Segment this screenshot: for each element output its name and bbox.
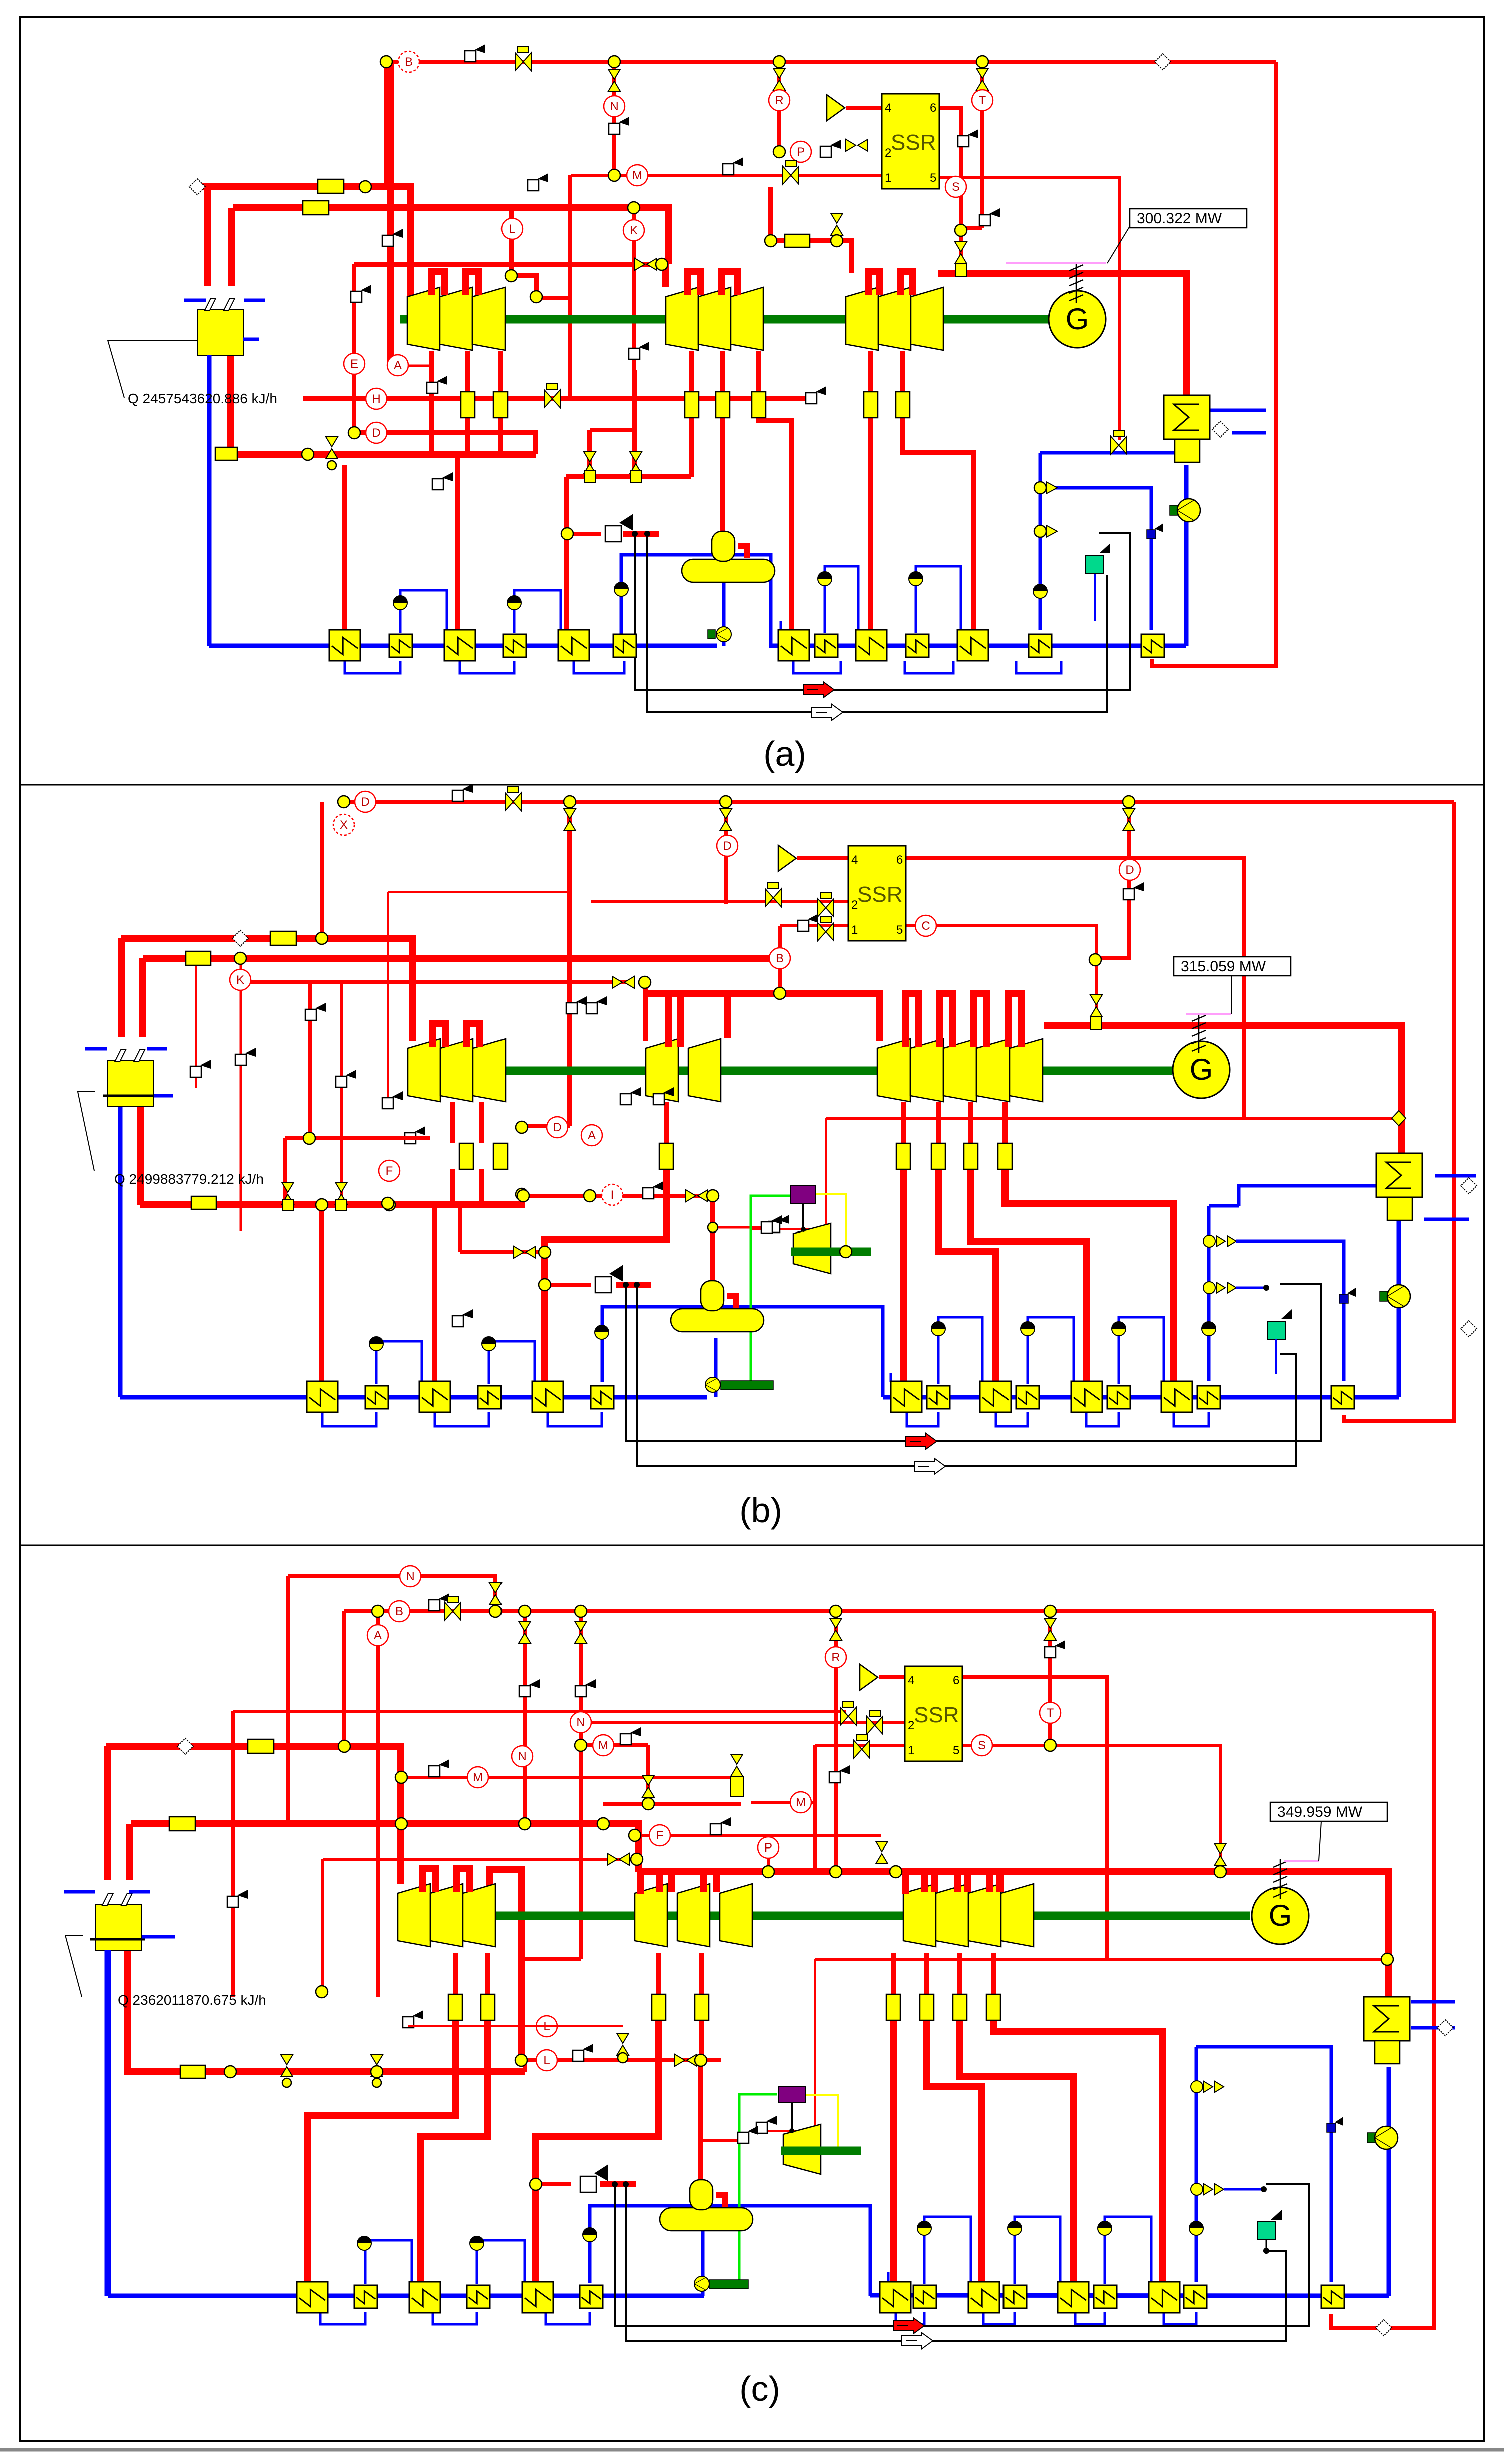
svg-text:5: 5 [930, 171, 936, 185]
feedwater heater 2 c [354, 2285, 377, 2308]
aux condensate top b2 [1239, 1186, 1389, 1206]
feedwater heater 15 b [1331, 1386, 1354, 1409]
node I end c [316, 1986, 328, 1998]
instrument tap [351, 285, 371, 302]
wire lp extr 2 a [900, 351, 905, 392]
mw leader b [1231, 976, 1232, 1014]
wire hp extr 2b a [465, 418, 470, 454]
heater vent 1 c [365, 2240, 412, 2284]
extraction nozzle [864, 392, 878, 418]
IP turbine section 2 c [677, 1884, 710, 1947]
feedwater heater 3 a [444, 630, 475, 661]
wire right return loop a [1152, 62, 1276, 666]
heater loop 4 a [793, 661, 841, 673]
svg-text:D: D [553, 1121, 561, 1134]
duct dot c3 [1263, 2248, 1269, 2254]
wire header drop b [320, 802, 324, 938]
wire ip extr0 a [689, 351, 694, 392]
svg-text:N: N [406, 1570, 414, 1583]
tap b4 [566, 996, 587, 1014]
wire deaerator inlet b [710, 1196, 715, 1285]
svg-text:N: N [576, 1716, 585, 1729]
heater loop 6 b [1086, 1412, 1119, 1426]
wire main steam 1 b [121, 938, 413, 1041]
makeup flag b [1281, 1309, 1292, 1319]
node [720, 796, 732, 808]
instrument tap [958, 129, 978, 147]
drain cooler 3 a [614, 582, 628, 596]
stop valve [818, 917, 834, 941]
heater vent 3 / deaerator bypass c [590, 2206, 870, 2296]
makeup dot b [1263, 1285, 1269, 1291]
wire IP inlet leg c [637, 1872, 644, 1894]
condensate downcomer a [207, 355, 212, 646]
feedwater heater 6 b [591, 1386, 614, 1409]
wire R drop c [834, 1611, 838, 1872]
wire gland drop b [340, 982, 343, 1197]
heater vent 6 b [1119, 1317, 1164, 1384]
heater loop 1 a [345, 661, 400, 673]
control valve [1044, 1618, 1056, 1640]
condensate downcomer c [105, 1950, 111, 2296]
air duct 2 b [637, 1285, 1296, 1466]
wire IP inlet b [643, 982, 648, 1041]
extraction nozzle [652, 1994, 666, 2020]
hx blue out 2 a [1232, 431, 1266, 435]
svg-text:G: G [1269, 1899, 1292, 1932]
feedwater heater 13 c [1149, 2282, 1180, 2313]
node reheat a [831, 235, 843, 247]
instrument tap [403, 2010, 423, 2028]
feedwater heater 4 c [467, 2285, 490, 2308]
wire boiler riser 1 a [204, 187, 211, 286]
tri1 [1046, 482, 1057, 494]
stop valve [515, 47, 531, 71]
drain cooler 3 c [583, 2228, 597, 2242]
svg-text:SSR: SSR [914, 1703, 959, 1727]
extraction nozzle [481, 1994, 495, 2020]
wire SSR pin5 line c [962, 1745, 1220, 1872]
LP crossover 3 c [990, 1872, 1000, 1892]
wire hp extr 2 b [479, 1102, 484, 1143]
drain cooler 5 c [1008, 2221, 1022, 2235]
node [642, 1798, 654, 1810]
svg-text:K: K [630, 224, 638, 237]
condensate main west a [209, 644, 717, 648]
svg-text:A: A [374, 1629, 382, 1642]
wire hp extr 1 c [453, 1953, 458, 1994]
wire P stub c [767, 1847, 770, 1872]
IP crossover 1 a [688, 272, 701, 295]
boiler a [198, 298, 244, 355]
svg-text:6: 6 [930, 101, 936, 115]
svg-text:(c): (c) [739, 2369, 780, 2408]
wire boiler feed drop c [128, 1950, 180, 2072]
IP turbine section 3 c [720, 1884, 752, 1947]
node [656, 258, 668, 270]
instrument tap [528, 173, 548, 191]
wire pegging drop 2 a [632, 370, 637, 471]
heater loop 5 b [996, 1412, 1028, 1426]
control valve [326, 437, 338, 459]
power line pink c [1284, 1860, 1319, 1862]
hx blue out 2 b [1435, 1174, 1476, 1178]
node [773, 146, 785, 158]
node [1044, 1605, 1056, 1617]
feedwater heater 10 b [1016, 1386, 1039, 1409]
drain cooler 6 a [1033, 584, 1047, 598]
turbine shaft b [408, 1067, 1172, 1075]
drain cooler 7 c [1189, 2221, 1203, 2235]
condensate riser b [1397, 1218, 1401, 1397]
valve body a [955, 264, 966, 277]
HP turbine section 1 a [407, 287, 440, 350]
LP turbine section 1 a [846, 287, 878, 350]
wire SSR pin6 line a [939, 108, 961, 257]
wire heater2 steam b [432, 1205, 437, 1381]
MW label a [1130, 209, 1247, 228]
HP turbine section 3 b [473, 1039, 506, 1102]
wire I line c [323, 1858, 638, 1861]
wire LP manifold c [638, 1868, 1034, 1875]
restrictor a4 [785, 234, 810, 247]
aux condensate c [1195, 2047, 1198, 2282]
wire relief stub c [600, 2181, 636, 2187]
turbine shaft a [400, 315, 1049, 324]
svg-text:Q 2362011870.675 kJ/h: Q 2362011870.675 kJ/h [118, 1992, 266, 2008]
wire cold reheat c [205, 2068, 525, 2075]
tap b7 [190, 1060, 211, 1077]
stream label M [593, 1735, 614, 1756]
stream label S [971, 1735, 992, 1756]
heater loop 2 a [460, 661, 514, 673]
svg-text:6: 6 [896, 853, 903, 867]
wire F riser b [283, 1138, 287, 1203]
drain cooler 2 c [470, 2236, 484, 2250]
IP turbine section 1 b [646, 1039, 678, 1102]
condensate main b2 [1351, 1395, 1399, 1400]
wire pin1 drop a [568, 175, 572, 399]
wire F line b [285, 1136, 430, 1140]
boiler blue stub TR c [129, 1890, 150, 1894]
heater vent 4 b [938, 1317, 982, 1384]
svg-text:A: A [394, 359, 402, 372]
node steam c [395, 1818, 407, 1830]
wire N-branch a [612, 62, 616, 175]
duct arrow red c [893, 2318, 924, 2334]
node I b [517, 1190, 529, 1202]
instrument tap [643, 1181, 663, 1199]
boiler blue stub L b [85, 1047, 107, 1051]
wire aux steam c [815, 1958, 1387, 1961]
wire F line c [635, 1834, 881, 1837]
generator G a [1049, 291, 1106, 348]
HP turbine section 2 c [430, 1884, 463, 1947]
wire right return loop c [1331, 1611, 1434, 2328]
valve cr2 b [335, 1182, 347, 1204]
svg-text:R: R [775, 94, 783, 107]
extraction nozzle [998, 1143, 1012, 1169]
wire T-branch a [980, 62, 984, 228]
drain cooler 4 a [818, 572, 832, 586]
drain cooler 2 b [482, 1337, 496, 1351]
node [338, 1740, 350, 1752]
stream label H [366, 388, 387, 409]
aux condensate b [1207, 1206, 1211, 1381]
extraction nozzle [493, 1143, 508, 1169]
connector header a [1155, 54, 1171, 70]
air duct 2 a [647, 534, 1107, 712]
power line pink a [1006, 262, 1106, 264]
LP turbine section 2 c [936, 1884, 968, 1947]
control valve [575, 1621, 587, 1643]
extraction nozzle [896, 392, 910, 418]
feedwater heater 5 c [522, 2282, 553, 2313]
boiler blue stub R b [154, 1094, 173, 1098]
extraction nozzle [659, 1143, 673, 1169]
feedwater heater 12 b [1107, 1386, 1130, 1409]
wire ip extr 2 c [699, 1953, 704, 1994]
node [629, 1829, 641, 1841]
instrument tap [798, 914, 818, 931]
makeup link b [1236, 1287, 1266, 1289]
connector steam a [189, 179, 205, 195]
feedwater heater 11 b [1071, 1381, 1102, 1412]
node [597, 1818, 609, 1830]
wire bypass drop a [387, 62, 394, 366]
stop valve [445, 1596, 461, 1620]
wire ip extr2 a [756, 351, 761, 392]
wire reheat aux drop b [387, 892, 389, 1106]
svg-text:X: X [340, 818, 348, 832]
wire M2 line c [751, 1801, 815, 1804]
cond valve 2 b [1203, 1282, 1236, 1294]
makeup flag a [1099, 543, 1110, 553]
svg-text:N: N [610, 100, 618, 113]
HP turbine section 2 a [440, 287, 472, 350]
wire aux drop c [231, 1711, 235, 1997]
tap b2 [336, 1070, 356, 1087]
LP turbine section 3 b [943, 1039, 976, 1102]
tap b10 [452, 1309, 473, 1327]
aux condensate 2 c [1196, 2047, 1331, 2282]
wire cr elbow c [523, 2060, 527, 2072]
node [519, 1605, 531, 1617]
feedwater heater 5 a [558, 630, 589, 661]
node [597, 1818, 609, 1830]
svg-text:F: F [656, 1829, 664, 1842]
wire IP inlet a [662, 264, 669, 287]
node [830, 1866, 842, 1878]
wire N header c [288, 1576, 495, 1605]
stream label C [915, 915, 936, 936]
wire ip extr 1 b [664, 1102, 669, 1143]
stream label M [627, 165, 648, 186]
wire lp extr 4 c [991, 1953, 996, 1994]
svg-text:E: E [350, 357, 358, 371]
wire hp extr 2 c [485, 1953, 490, 1994]
node [1089, 954, 1101, 966]
HP crossover 2 b [466, 1023, 479, 1047]
Q leader c [65, 1935, 83, 1997]
IP admission valve c [607, 1853, 629, 1865]
bfpt turbine b [793, 1223, 831, 1274]
feedwater heater 10 a [906, 634, 929, 657]
stream label T [972, 90, 993, 111]
wire cold reheat a [235, 451, 536, 458]
drain cooler 3 b [595, 1325, 609, 1339]
hx blue out 1 c [1411, 2000, 1455, 2004]
tri2 [1046, 525, 1057, 537]
MW label b [1174, 957, 1291, 976]
wire relief link a [567, 532, 601, 536]
wire tap drop 2 b [195, 958, 197, 1088]
node [539, 1246, 551, 1258]
wire D-branch 2 b [1096, 802, 1129, 958]
tap b2b [382, 1091, 403, 1109]
wire main steam 2 c [131, 1824, 638, 1872]
deaerator b [671, 1281, 764, 1332]
HP turbine section 3 a [472, 287, 505, 350]
valve s c [1214, 1843, 1226, 1866]
feedwater heater 12 c [1094, 2285, 1117, 2308]
boiler blue stub TR b [147, 1047, 167, 1051]
panel divider b/c [20, 1545, 1484, 1546]
feedwater heater 3 c [409, 2282, 440, 2313]
LP admission valve b [1090, 995, 1102, 1017]
svg-text:300.322 MW: 300.322 MW [1137, 210, 1222, 227]
condensate main c2 [1331, 2294, 1389, 2298]
node [519, 1818, 531, 1830]
node [976, 56, 988, 68]
LP crossover 2 b [940, 993, 953, 1047]
svg-text:5: 5 [953, 1744, 959, 1757]
heater loop 1 c [320, 2312, 365, 2324]
wire hp extr 1 a [429, 351, 434, 454]
control valve [608, 69, 620, 91]
feedwater heater 2 b [365, 1386, 388, 1409]
generator G c [1252, 1887, 1309, 1944]
tap b6 [235, 1048, 256, 1065]
IP crossover 2 a [722, 272, 738, 295]
wire relief stub a [623, 531, 659, 537]
node [530, 2178, 542, 2190]
tap b9 [653, 1087, 674, 1105]
deaerator valve 2 a [630, 452, 642, 474]
control valve [519, 1621, 531, 1643]
wire heater2 steam c [420, 2020, 488, 2282]
drain tap blue b [1339, 1288, 1356, 1303]
instrument tap [432, 472, 453, 490]
condensate main west b [120, 1395, 707, 1400]
IP inlet valve c [876, 1841, 888, 1864]
node [773, 56, 785, 68]
drain cooler 7 b [1202, 1322, 1216, 1336]
aux condensate top a [1040, 451, 1174, 455]
power line pink b [1186, 1013, 1231, 1015]
valve body b [1091, 1017, 1102, 1030]
feedwater heater 7 c [880, 2282, 911, 2313]
wire aux line c [233, 1710, 846, 1713]
wire D-branch b [724, 802, 728, 904]
svg-text:L: L [543, 2054, 550, 2067]
deaerator valve 1 a [584, 452, 596, 474]
extraction nozzle [493, 392, 508, 418]
LP crossover 2 c [957, 1872, 967, 1892]
svg-text:L: L [509, 222, 515, 236]
node [631, 1853, 643, 1865]
stream label K [623, 220, 644, 241]
wire I drop c [321, 1859, 324, 1997]
wire heater7 steam b [1005, 1169, 1174, 1381]
drain cooler 4 b [931, 1322, 945, 1336]
svg-text:G: G [1066, 302, 1089, 336]
wire heater3 steam a [564, 477, 569, 630]
wire SSR pin1 line c [815, 1744, 905, 1747]
valve body da1 [584, 471, 595, 483]
condensate pump b [1380, 1285, 1410, 1308]
instrument tap [979, 208, 1000, 226]
HP crossover 1 b [432, 1023, 445, 1047]
bfpt turbine c [783, 2124, 821, 2174]
stop valve [840, 1701, 856, 1725]
aux condensate a [1039, 453, 1042, 630]
instrument tap [382, 229, 403, 246]
node l3 c [618, 2053, 628, 2063]
tap b1 [305, 1003, 326, 1020]
heater vent 5 b [1028, 1317, 1074, 1384]
heater loop 7 b [1174, 1412, 1209, 1426]
instrument tap [465, 44, 485, 62]
wire heater1 steam c [308, 2020, 455, 2282]
wire dea aux b [460, 1250, 545, 1254]
svg-text:F: F [386, 1164, 393, 1178]
node [530, 291, 542, 303]
extraction nozzle [964, 1143, 978, 1169]
tap b8 [620, 1087, 641, 1105]
stream label A [387, 355, 408, 376]
feedwater heater 4 a [503, 634, 526, 657]
node s c [1214, 1866, 1226, 1878]
MW label c [1270, 1802, 1387, 1821]
heater4 vent stub c [887, 2272, 890, 2281]
wire header drop a1 [384, 62, 388, 187]
stream label S [945, 176, 966, 197]
makeup drop b [1275, 1339, 1277, 1374]
wire N3 drop c [579, 1611, 583, 1959]
svg-text:B: B [776, 952, 784, 965]
svg-text:N: N [518, 1750, 526, 1763]
heater loop 5 c [983, 2312, 1015, 2324]
makeup tank b [1267, 1321, 1285, 1339]
wire aux steam b [826, 1117, 1399, 1120]
node [765, 235, 777, 247]
wire reheat link a [771, 241, 852, 273]
extraction nozzle [685, 392, 699, 418]
drain cooler 1 b [369, 1337, 383, 1351]
wire L drop a [511, 208, 536, 297]
svg-text:P: P [797, 145, 805, 159]
air duct 1 a [635, 533, 1130, 690]
svg-text:D: D [723, 839, 731, 853]
wire relief stub b [616, 1282, 651, 1288]
wire lp extr 2 c [924, 1953, 929, 1994]
IP crossover b [668, 993, 681, 1047]
LP crossover 3 b [974, 993, 987, 1047]
LP turbine section 1 c [903, 1884, 936, 1947]
turbine shaft c [398, 1912, 1250, 1920]
svg-text:B: B [405, 55, 413, 69]
